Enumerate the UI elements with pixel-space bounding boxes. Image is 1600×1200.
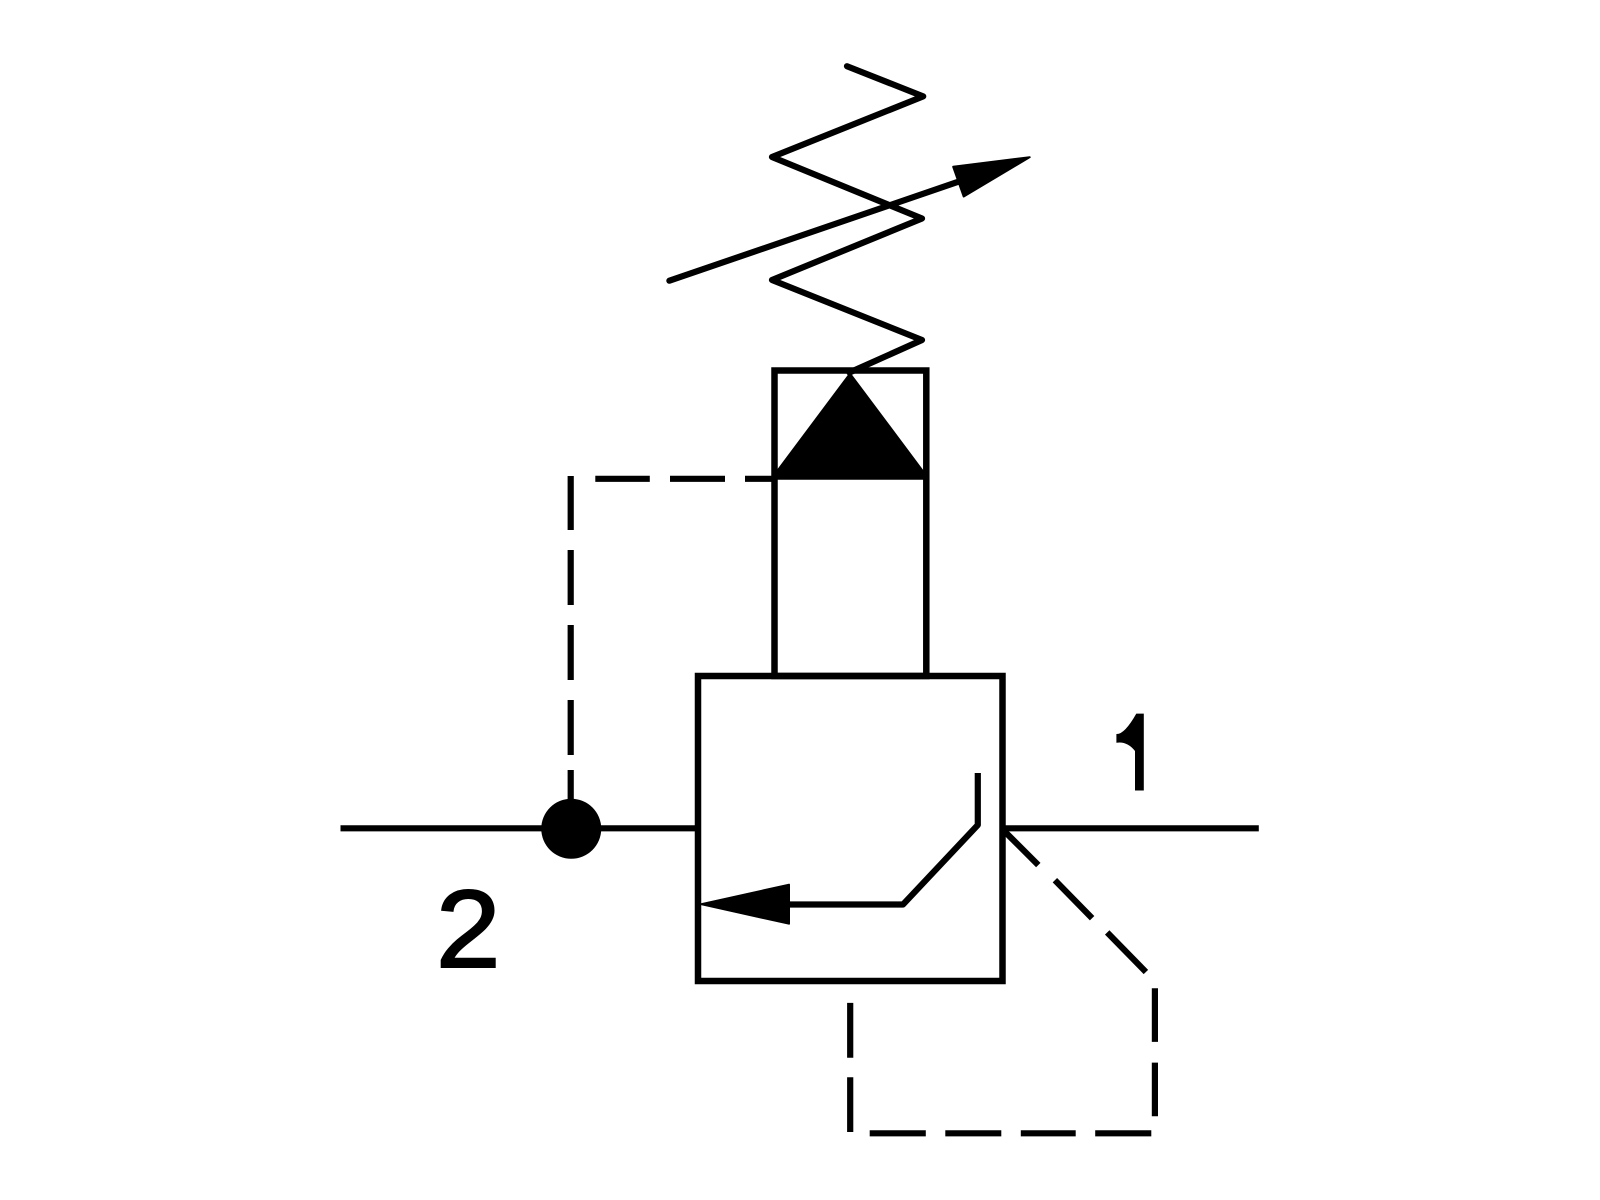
valve body box xyxy=(698,676,1003,981)
adjustment arrow shaft xyxy=(669,182,958,281)
drain line (dashed) bottom horizontal xyxy=(870,1130,1152,1136)
port 1 wire xyxy=(1003,825,1259,831)
port label 1 xyxy=(1116,714,1143,791)
pilot stage box xyxy=(775,371,927,677)
spring (adjustable) xyxy=(772,66,923,372)
pilot line (dashed) horizontal xyxy=(595,476,774,482)
port label 2 xyxy=(442,890,495,967)
adjustment arrow head xyxy=(953,157,1029,196)
sealed poppet triangle xyxy=(778,377,923,474)
triangle base line xyxy=(775,474,927,480)
pilot line (dashed) vertical xyxy=(568,476,574,799)
port 2 wire xyxy=(341,825,702,831)
junction node dot xyxy=(541,799,601,859)
drain line (dashed) diagonal xyxy=(1003,830,1146,973)
drain line (dashed) right vertical xyxy=(1152,988,1158,1116)
drain line (dashed) left vertical xyxy=(847,1003,853,1132)
internal flow arrow head xyxy=(701,885,789,924)
internal flow path xyxy=(785,773,978,905)
